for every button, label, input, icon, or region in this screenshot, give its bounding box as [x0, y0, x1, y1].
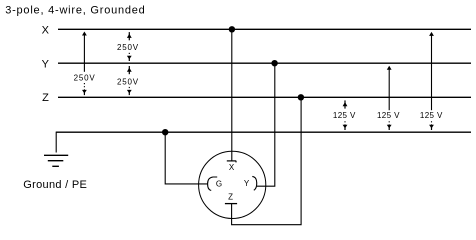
voltage arrow X-Y 250V	[117, 32, 139, 61]
terminal Y blade	[252, 176, 256, 190]
node junction PE tap	[162, 129, 168, 135]
svg-text:Z: Z	[228, 192, 233, 201]
svg-text:250V: 250V	[74, 73, 96, 82]
voltage arrow X-PE 125V	[420, 32, 443, 130]
svg-text:250V: 250V	[117, 43, 139, 52]
wire ground riser	[55, 132, 57, 153]
ground	[44, 155, 68, 166]
wire PE drop to receptacle	[165, 132, 207, 184]
terminal X blade	[227, 161, 237, 163]
wire phase Z bus	[58, 96, 471, 98]
svg-text:Z: Z	[42, 92, 49, 104]
svg-text:125 V: 125 V	[333, 111, 356, 120]
svg-text:X: X	[42, 25, 50, 37]
wire phase X bus	[58, 28, 471, 30]
node junction Y tap	[271, 60, 277, 66]
node junction Z tap	[298, 94, 304, 100]
svg-text:3-pole, 4-wire, Grounded: 3-pole, 4-wire, Grounded	[5, 5, 145, 17]
svg-text:Ground / PE: Ground / PE	[23, 179, 87, 191]
wire PE bus	[56, 131, 471, 133]
svg-text:Y: Y	[42, 59, 50, 71]
terminal G blade	[208, 177, 218, 190]
voltage arrow X-Z 250V	[74, 32, 96, 96]
wire phase Y bus	[58, 62, 471, 64]
terminal Z blade	[225, 203, 237, 205]
svg-text:250V: 250V	[117, 77, 139, 86]
voltage arrow Z-PE 125V	[333, 100, 356, 130]
svg-text:125 V: 125 V	[420, 111, 443, 120]
voltage arrow Y-Z 250V	[117, 66, 139, 95]
receptacle outline	[199, 151, 266, 218]
svg-text:Y: Y	[244, 179, 250, 188]
svg-text:G: G	[216, 179, 222, 188]
node junction X tap	[229, 26, 235, 32]
svg-text:X: X	[229, 163, 235, 172]
voltage arrow Y-PE 125V	[377, 66, 400, 130]
svg-text:125 V: 125 V	[377, 111, 400, 120]
wire Z drop to receptacle	[232, 97, 302, 224]
wire X drop to receptacle	[231, 29, 233, 161]
wire Y drop to receptacle	[257, 63, 275, 186]
